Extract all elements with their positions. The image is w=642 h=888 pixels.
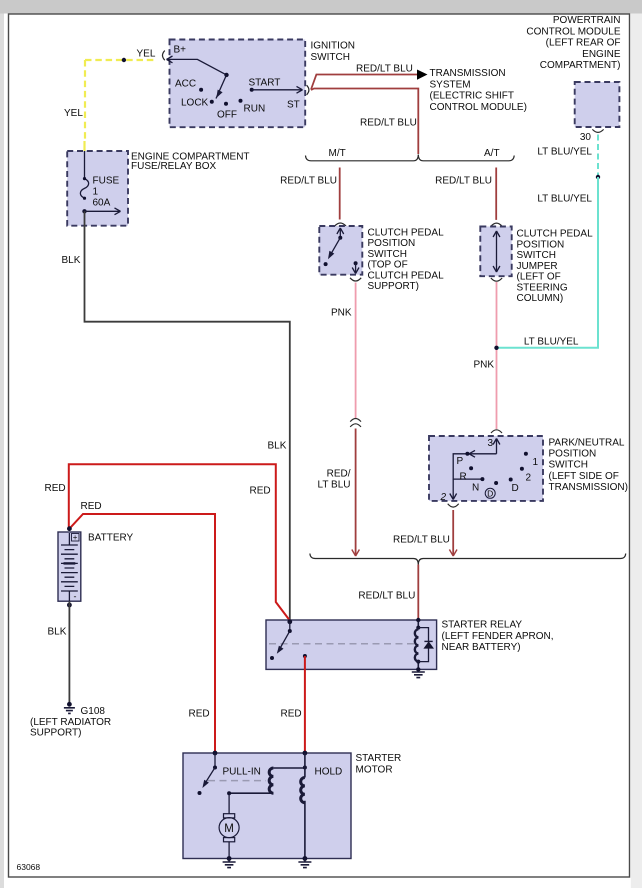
svg-text:HOLD: HOLD (315, 767, 343, 778)
relay diode branch (418, 628, 428, 662)
svg-text:N: N (472, 483, 479, 494)
clutch switch blade (330, 238, 341, 257)
wire YEL vertical dashed (84, 60, 86, 141)
svg-text:SWITCH: SWITCH (517, 250, 556, 261)
contact dot START (250, 88, 254, 92)
contact dot D (509, 478, 513, 482)
connector cup clutch switch top (335, 223, 346, 226)
wire YEL solid stub into fuse box (83, 141, 85, 152)
svg-text:RED/LT BLU: RED/LT BLU (393, 535, 450, 546)
ignition switch box (170, 40, 306, 128)
svg-text:LT BLU: LT BLU (318, 479, 351, 490)
svg-text:BLK: BLK (48, 627, 67, 638)
svg-text:LOCK: LOCK (181, 98, 209, 109)
node brace merge (310, 554, 626, 565)
battery bottom dot (67, 603, 72, 608)
svg-text:3: 3 (487, 438, 493, 449)
svg-text:RED/LT BLU: RED/LT BLU (358, 591, 415, 602)
node splice LT BLU/YEL (596, 175, 600, 179)
svg-text:LT BLU/YEL: LT BLU/YEL (537, 194, 592, 205)
svg-text:A/T: A/T (484, 148, 500, 159)
svg-text:STARTER: STARTER (356, 753, 402, 764)
clutch switch pin arrow up (339, 228, 341, 238)
contact dot 1 (524, 452, 528, 456)
contact dot ACC (199, 88, 203, 92)
wiper arrow pointing left at P (469, 450, 475, 457)
svg-text:PNK: PNK (474, 360, 495, 371)
ignition pivot dot (224, 73, 228, 77)
connector cup clutch switch bottom (350, 278, 361, 281)
svg-text:RED: RED (189, 709, 210, 720)
svg-text:RED/LT BLU: RED/LT BLU (280, 176, 337, 187)
svg-text:JUMPER: JUMPER (517, 261, 558, 272)
svg-text:(LEFT SIDE OF: (LEFT SIDE OF (549, 471, 619, 482)
wire RED/LT BLU below connector with arrow to brace (355, 429, 357, 556)
svg-text:(TOP OF: (TOP OF (368, 260, 408, 271)
svg-text:RED: RED (281, 709, 302, 720)
connector cup at B+ (163, 51, 165, 61)
starter dashed link (208, 780, 266, 782)
svg-text:2: 2 (526, 473, 532, 484)
svg-text:CLUTCH PEDAL: CLUTCH PEDAL (368, 227, 445, 238)
svg-text:CONTROL MODULE: CONTROL MODULE (526, 26, 620, 37)
relay ground (416, 667, 420, 671)
contact dot N (480, 477, 484, 481)
svg-text:RED/: RED/ (327, 469, 351, 480)
ignition switch blade to LOCK (216, 75, 227, 99)
svg-text:FUSE: FUSE (93, 176, 120, 187)
svg-text:COMPARTMENT): COMPARTMENT) (540, 60, 621, 71)
svg-text:RED: RED (45, 483, 66, 494)
starter motor ground left (227, 856, 232, 861)
svg-text:SUPPORT): SUPPORT) (368, 281, 420, 292)
svg-text:ST: ST (287, 100, 300, 111)
svg-text:B+: B+ (174, 45, 187, 56)
starter relay box (266, 620, 437, 669)
connector cup jumper top (491, 223, 502, 226)
svg-text:RED/LT BLU: RED/LT BLU (356, 64, 413, 75)
connector cup jumper bottom (491, 278, 502, 281)
clutch pedal position switch jumper box (480, 227, 511, 277)
svg-text:G108: G108 (81, 706, 106, 717)
wire START to ST with arrow (252, 89, 303, 91)
wire LT BLU/YEL solid down and left (498, 177, 598, 348)
relay coil (417, 620, 419, 669)
inline connector M/T (350, 419, 361, 422)
relay switch blade (279, 631, 290, 651)
park/neutral wiper line (453, 454, 496, 479)
relay input junction dot (287, 619, 292, 624)
svg-text:YEL: YEL (137, 49, 156, 60)
park/neutral position switch box (429, 436, 543, 501)
starter switch blade (204, 768, 215, 786)
svg-text:STARTER RELAY: STARTER RELAY (442, 620, 523, 631)
jumper double arrow (496, 231, 498, 272)
hold coil (303, 766, 307, 770)
wire RED/LT BLU brace to relay coil (417, 565, 419, 627)
fuse junction dot (82, 209, 86, 213)
svg-text:RED: RED (81, 501, 102, 512)
clutch pedal position switch box (319, 226, 362, 275)
svg-text:30: 30 (580, 132, 592, 143)
wire YEL horizontal dashed (85, 59, 157, 61)
svg-text:BLK: BLK (268, 441, 287, 452)
svg-text:POSITION: POSITION (368, 238, 416, 249)
pin 2 arrow down (452, 479, 454, 499)
svg-text:NEAR BATTERY): NEAR BATTERY) (442, 642, 521, 653)
svg-text:63068: 63068 (17, 862, 41, 872)
wire B+ feed with arrow (167, 59, 227, 75)
svg-text:TRANSMISSION): TRANSMISSION) (549, 482, 628, 493)
connector cup park/neutral bottom (448, 504, 459, 507)
svg-text:SYSTEM: SYSTEM (430, 79, 471, 90)
node PNK junction with LT BLU/YEL (494, 346, 498, 350)
clutch switch pivot dot (338, 236, 342, 240)
svg-text:SWITCH: SWITCH (368, 249, 407, 260)
contact dot LOCK (210, 100, 214, 104)
starter switch pivot (214, 753, 216, 768)
relay switch pivot (289, 622, 291, 631)
motor M1 (228, 793, 230, 814)
svg-text:R: R (460, 472, 467, 483)
svg-text:1: 1 (93, 187, 99, 198)
wire BLK from fuse box (85, 211, 290, 620)
battery top dot (67, 526, 72, 531)
svg-text:CLUTCH PEDAL: CLUTCH PEDAL (517, 229, 594, 240)
svg-text:SWITCH: SWITCH (549, 460, 588, 471)
svg-text:TRANSMISSION: TRANSMISSION (430, 68, 506, 79)
starter input dots (213, 751, 218, 756)
svg-text:D: D (487, 488, 493, 498)
fuse feed arrow right (85, 210, 120, 212)
engine compartment fuse/relay box (67, 151, 128, 226)
battery B1 (58, 532, 81, 601)
relay output dot (303, 654, 307, 658)
svg-text:COLUMN): COLUMN) (517, 293, 564, 304)
fuse F1 wire top (84, 151, 86, 179)
fuse 1 60A symbol (80, 179, 88, 199)
svg-text:IGNITION: IGNITION (311, 41, 355, 52)
wire RED/LT BLU A/T branch (495, 168, 497, 220)
clutch switch pin arrow down (355, 263, 357, 273)
svg-text:BATTERY: BATTERY (88, 533, 134, 544)
battery internal plates (68, 533, 70, 545)
clutch switch lower contact dot (354, 261, 358, 265)
svg-text:(ELECTRIC SHIFT: (ELECTRIC SHIFT (430, 91, 514, 102)
svg-text:POWERTRAIN: POWERTRAIN (553, 15, 621, 26)
circled D symbol (485, 488, 495, 498)
svg-text:YEL: YEL (64, 108, 83, 119)
svg-text:LT BLU/YEL: LT BLU/YEL (524, 337, 579, 348)
svg-text:2: 2 (440, 492, 447, 503)
svg-text:SWITCH: SWITCH (311, 52, 350, 63)
svg-text:MOTOR: MOTOR (356, 764, 393, 775)
connector cup pin 30 (592, 129, 603, 132)
svg-text:SUPPORT): SUPPORT) (30, 728, 82, 739)
svg-text:(LEFT REAR OF: (LEFT REAR OF (546, 38, 621, 49)
wire RED/LT BLU from ST down to brace (311, 89, 418, 155)
relay switch contact dot (270, 656, 274, 660)
wire LT BLU/YEL dashed (597, 135, 599, 178)
battery plus terminal box (72, 534, 80, 542)
svg-text:ACC: ACC (175, 79, 196, 90)
contact dot R (469, 466, 473, 470)
svg-text:M: M (224, 823, 234, 835)
svg-text:M/T: M/T (329, 148, 346, 159)
starter motor box (183, 753, 351, 859)
svg-text:RED/LT BLU: RED/LT BLU (360, 118, 417, 129)
clutch switch contact dot (324, 262, 328, 266)
svg-text:CLUTCH PEDAL: CLUTCH PEDAL (368, 270, 445, 281)
wire PNK M/T (355, 283, 357, 419)
node yellow junction (122, 58, 126, 62)
pull-in coil (273, 767, 305, 769)
svg-text:(LEFT RADIATOR: (LEFT RADIATOR (30, 717, 111, 728)
connector cup at ST (307, 85, 309, 95)
wire RED relay to starter hold (304, 656, 306, 752)
svg-text:P: P (457, 456, 464, 467)
svg-text:-: - (74, 592, 77, 602)
svg-text:(LEFT OF: (LEFT OF (517, 272, 561, 283)
svg-text:PNK: PNK (331, 308, 352, 319)
wire RED/LT BLU M/T branch (339, 168, 341, 220)
wire PNK A/T (496, 282, 498, 429)
svg-text:1: 1 (533, 457, 539, 468)
svg-text:POSITION: POSITION (517, 239, 565, 250)
svg-text:OFF: OFF (217, 110, 237, 121)
svg-text:START: START (249, 78, 281, 89)
starter motor ground right (303, 856, 308, 861)
svg-text:CONTROL MODULE): CONTROL MODULE) (430, 102, 527, 113)
contact dot P (465, 452, 469, 456)
svg-text:POSITION: POSITION (549, 449, 597, 460)
wire RED/LT BLU to transmission arrow (311, 75, 417, 90)
svg-text:LT BLU/YEL: LT BLU/YEL (537, 147, 592, 158)
svg-text:PARK/NEUTRAL: PARK/NEUTRAL (549, 438, 625, 449)
svg-text:ENGINE: ENGINE (582, 49, 621, 60)
wire BLK battery to ground (68, 602, 70, 705)
svg-text:STEERING: STEERING (517, 282, 568, 293)
svg-text:RED/LT BLU: RED/LT BLU (435, 176, 492, 187)
node brace split M/T A/T (306, 155, 515, 161)
contact dot circled D (494, 481, 498, 485)
svg-text:BLK: BLK (62, 255, 81, 266)
contact dot OFF (224, 102, 228, 106)
svg-text:D: D (512, 483, 519, 494)
wire RED battery to starter pull-in (69, 514, 215, 752)
starter switch contact dot (198, 791, 202, 795)
svg-text:PULL-IN: PULL-IN (223, 767, 261, 778)
connector cup park/neutral top (491, 430, 502, 433)
svg-text:FUSE/RELAY BOX: FUSE/RELAY BOX (131, 161, 217, 172)
pin 3 arrow up (496, 439, 498, 454)
svg-text:RUN: RUN (244, 104, 266, 115)
wire RED battery to relay (69, 464, 290, 620)
contact dot RUN (239, 99, 243, 103)
svg-text:+: + (73, 533, 78, 542)
svg-text:(LEFT FENDER APRON,: (LEFT FENDER APRON, (442, 631, 554, 642)
wire RED/LT BLU from park/neutral with arrow (452, 510, 454, 555)
contact dot 2 (520, 467, 524, 471)
relay dashed link line (269, 643, 415, 645)
svg-text:RED: RED (250, 486, 271, 497)
arrow to transmission system (417, 70, 428, 80)
ground G108 (67, 702, 72, 707)
powertrain control module box (575, 82, 620, 127)
svg-text:60A: 60A (93, 198, 111, 209)
